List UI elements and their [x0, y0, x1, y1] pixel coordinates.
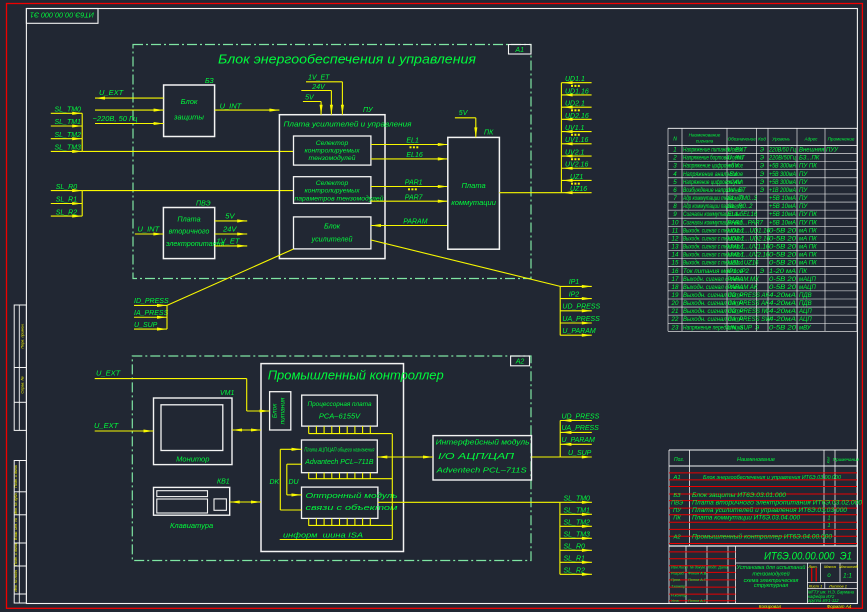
svg-text:14: 14 — [672, 252, 679, 259]
svg-text:Масса: Масса — [824, 564, 837, 569]
svg-text:структурная: структурная — [754, 583, 788, 589]
svg-text:ПУ ПК: ПУ ПК — [799, 164, 817, 170]
svg-text:220В/50Гц: 220В/50Гц — [768, 156, 796, 162]
svg-text:тензомодулей: тензомодулей — [309, 154, 356, 162]
svg-text:+5В 10мА: +5В 10мА — [769, 220, 796, 226]
svg-text:18: 18 — [672, 284, 679, 291]
svg-text:мА ПК: мА ПК — [799, 228, 817, 234]
svg-text:19: 19 — [672, 292, 679, 299]
svg-text:-5V: -5V — [728, 172, 738, 178]
svg-text:мАЦП: мАЦП — [799, 285, 816, 291]
svg-text:0-5В 20: 0-5В 20 — [769, 236, 797, 242]
svg-text:SL_TM3: SL_TM3 — [564, 531, 591, 538]
svg-text:U_INT: U_INT — [728, 156, 747, 162]
svg-text:1:1: 1:1 — [843, 573, 852, 580]
svg-text:Уровень: Уровень — [772, 137, 790, 142]
svg-text:U_INT: U_INT — [220, 102, 243, 111]
svg-text:UN_SUP Э: UN_SUP Э — [728, 325, 760, 331]
svg-text:UV1.16: UV1.16 — [565, 137, 588, 144]
svg-text:SL_R0..2: SL_R0..2 — [728, 204, 754, 210]
svg-text:ПВЭ: ПВЭ — [196, 201, 211, 208]
svg-text:Промышленный контроллер ИТ6Э.0: Промышленный контроллер ИТ6Э.04.00.000 — [692, 534, 833, 541]
svg-text:мА ПК: мА ПК — [799, 253, 817, 259]
svg-text:Блок: Блок — [272, 403, 279, 419]
svg-text:вторичного: вторичного — [169, 227, 210, 236]
svg-text:Промышленный контроллер: Промышленный контроллер — [268, 368, 444, 383]
svg-text:U_EXT: U_EXT — [728, 148, 749, 154]
svg-text:сигнала: сигнала — [696, 139, 714, 144]
svg-text:6: 6 — [673, 187, 677, 194]
svg-text:Блок энергообеспечения и управ: Блок энергообеспечения и управления — [218, 52, 476, 67]
svg-text:1-20 мА: 1-20 мА — [769, 269, 796, 275]
svg-text:1V_ET: 1V_ET — [217, 237, 241, 246]
svg-text:8: 8 — [673, 203, 677, 210]
svg-text:А1: А1 — [672, 475, 680, 481]
svg-text:+5В 10мА: +5В 10мА — [769, 204, 796, 210]
svg-text:Справ. №: Справ. № — [21, 376, 25, 393]
svg-text:UD2.1: UD2.1 — [565, 101, 585, 108]
svg-text:4-20мА: 4-20мА — [769, 317, 796, 323]
svg-text:+5В 10мА: +5В 10мА — [769, 196, 796, 202]
svg-text:Интерфейсный модуль: Интерфейсный модуль — [436, 438, 530, 447]
svg-text:Блок: Блок — [324, 222, 341, 231]
svg-text:Наименование: Наименование — [737, 457, 775, 463]
svg-text:ПУ: ПУ — [799, 204, 808, 210]
svg-text:SL_TM0..3: SL_TM0..3 — [728, 196, 758, 202]
svg-text:24V: 24V — [222, 225, 237, 234]
svg-text:Подп. и дата: Подп. и дата — [14, 543, 18, 566]
svg-text:+1В 200мА: +1В 200мА — [769, 188, 796, 194]
svg-text:+24V: +24V — [728, 180, 743, 186]
svg-text:Поз.: Поз. — [674, 457, 684, 463]
svg-text:Э: Э — [760, 148, 764, 154]
svg-text:U_SUP: U_SUP — [134, 322, 158, 329]
svg-text:I/O АЦП/ЦАП: I/O АЦП/ЦАП — [438, 451, 515, 461]
svg-text:Установка для испытаний: Установка для испытаний — [736, 564, 806, 571]
svg-text:22: 22 — [671, 316, 679, 323]
svg-text:Внешняя ПУУ: Внешняя ПУУ — [799, 148, 839, 154]
svg-text:Н.контр.: Н.контр. — [671, 594, 687, 598]
svg-text:Подп. и дата: Подп. и дата — [14, 465, 18, 488]
svg-text:0-5В 20: 0-5В 20 — [769, 261, 797, 267]
svg-text:16: 16 — [672, 268, 679, 275]
svg-text:Лит.: Лит. — [807, 564, 817, 569]
svg-text:UD2.16: UD2.16 — [565, 113, 589, 120]
svg-text:усилителей: усилителей — [310, 235, 352, 244]
svg-text:U_EXT: U_EXT — [96, 369, 122, 378]
svg-text:Э: Э — [760, 188, 764, 194]
svg-text:+5В 300мА: +5В 300мА — [769, 164, 796, 170]
svg-text:11: 11 — [672, 227, 678, 234]
svg-text:10: 10 — [672, 219, 679, 226]
svg-text:Копировал: Копировал — [759, 604, 782, 609]
svg-text:Фокин А.В.: Фокин А.В. — [688, 572, 707, 576]
svg-text:А2: А2 — [672, 535, 681, 541]
svg-text:Плата: Плата — [462, 181, 486, 190]
svg-text:5V: 5V — [305, 94, 315, 101]
svg-text:~220В, 50 Гц: ~220В, 50 Гц — [93, 114, 139, 123]
svg-text:0-5В 20: 0-5В 20 — [769, 325, 797, 331]
svg-text:5: 5 — [673, 179, 677, 186]
svg-text:U_SUP: U_SUP — [568, 450, 592, 457]
svg-text:7: 7 — [673, 195, 677, 202]
svg-text:ПУ ПК: ПУ ПК — [799, 220, 817, 226]
svg-text:Э: Э — [760, 156, 764, 162]
svg-text:Э: Э — [760, 164, 764, 170]
svg-text:АЦП: АЦП — [798, 309, 812, 315]
svg-text:EL1: EL1 — [406, 138, 419, 145]
svg-text:UD_PRESS IW: UD_PRESS IW — [728, 309, 771, 315]
svg-text:0-5В 20: 0-5В 20 — [769, 245, 797, 251]
svg-text:А2: А2 — [515, 359, 525, 366]
svg-text:0-5В 20: 0-5В 20 — [769, 285, 797, 291]
svg-text:PARAM.MX: PARAM.MX — [728, 277, 761, 283]
svg-text:Масштаб: Масштаб — [839, 564, 858, 569]
svg-text:UZ1...UZ16: UZ1...UZ16 — [728, 261, 760, 267]
svg-text:220В/50 Гц: 220В/50 Гц — [768, 148, 796, 154]
svg-text:SL_R1: SL_R1 — [564, 555, 586, 562]
svg-text:ИТ6Э.00.00.000 Э1: ИТ6Э.00.00.000 Э1 — [764, 551, 852, 563]
svg-text:UD2.1...UD2.16: UD2.1...UD2.16 — [728, 236, 771, 242]
svg-text:4-20мА: 4-20мА — [769, 301, 796, 307]
svg-text:1: 1 — [673, 147, 676, 154]
svg-text:Клавиатура: Клавиатура — [170, 521, 213, 530]
svg-text:Попов А.Г.: Попов А.Г. — [688, 599, 707, 603]
svg-text:UD1.16: UD1.16 — [565, 88, 589, 95]
svg-text:U_EXT: U_EXT — [99, 88, 125, 97]
svg-text:ПК: ПК — [799, 269, 807, 275]
svg-text:мВУ: мВУ — [799, 325, 812, 331]
svg-text:Применение: Применение — [828, 137, 855, 142]
svg-text:UZ16: UZ16 — [570, 186, 587, 193]
svg-text:А1: А1 — [514, 47, 524, 54]
svg-text:SL_TM2: SL_TM2 — [564, 519, 591, 526]
svg-text:PARAM AK: PARAM AK — [728, 285, 759, 291]
svg-text:SL_TM1: SL_TM1 — [564, 507, 591, 514]
svg-text:ПДВ: ПДВ — [799, 301, 812, 307]
svg-text:SL_TM1: SL_TM1 — [55, 119, 82, 126]
svg-text:Взам. инв. №: Взам. инв. № — [14, 518, 18, 540]
svg-text:Блок защиты ИТ6Э.03.01.000: Блок защиты ИТ6Э.03.01.000 — [692, 492, 787, 499]
svg-text:PAR1: PAR1 — [405, 180, 423, 187]
svg-text:ПДВ: ПДВ — [799, 293, 812, 299]
svg-text:мА ПК: мА ПК — [799, 236, 817, 242]
svg-text:SL_TM2: SL_TM2 — [55, 132, 82, 139]
svg-text:Инв. № дубл.: Инв. № дубл. — [14, 492, 18, 514]
svg-text:Плата вторичного электропитани: Плата вторичного электропитания ИТ6Э.03.… — [692, 500, 863, 507]
svg-text:UA_PRESS SW: UA_PRESS SW — [728, 317, 773, 323]
svg-text:Advantech PCL–711B: Advantech PCL–711B — [304, 459, 374, 466]
svg-text:Кол: Кол — [826, 456, 831, 463]
svg-text:PARAM: PARAM — [403, 219, 428, 226]
svg-text:UV2.1: UV2.1 — [565, 149, 585, 156]
svg-text:коммутации: коммутации — [451, 198, 496, 207]
svg-text:0-5В 20: 0-5В 20 — [769, 253, 797, 259]
svg-text:DU: DU — [289, 479, 300, 486]
svg-text:Э: Э — [760, 172, 764, 178]
svg-text:ИТ6Э.00.00.000 Э1: ИТ6Э.00.00.000 Э1 — [30, 11, 94, 18]
svg-text:EL1...EL16: EL1...EL16 — [728, 212, 758, 218]
svg-text:IP2: IP2 — [569, 291, 580, 298]
svg-text:+5В 300мА: +5В 300мА — [769, 172, 796, 178]
svg-text:Блок энергообеспечения и управ: Блок энергообеспечения и управления ИТ6Э… — [703, 475, 842, 481]
svg-text:Плата усилителей и управления: Плата усилителей и управления ИТ6Э.03.03… — [692, 507, 848, 514]
svg-text:ПУ: ПУ — [363, 107, 374, 114]
svg-text:Т.контр.: Т.контр. — [671, 585, 686, 589]
svg-text:АЦП: АЦП — [798, 317, 812, 323]
svg-text:4: 4 — [673, 171, 677, 178]
svg-text:12: 12 — [672, 235, 679, 242]
svg-text:UV1.1: UV1.1 — [565, 125, 585, 132]
svg-text:13: 13 — [672, 244, 679, 251]
svg-text:Оптронный модуль: Оптронный модуль — [306, 491, 398, 500]
svg-text:SL_TM3: SL_TM3 — [55, 145, 82, 152]
svg-text:Плата АЦП/ЦАП общего назначени: Плата АЦП/ЦАП общего назначения — [304, 448, 374, 454]
svg-text:UZ1: UZ1 — [570, 174, 583, 181]
svg-text:Разраб.: Разраб. — [671, 572, 685, 576]
svg-text:1V_ET: 1V_ET — [728, 188, 748, 194]
svg-text:UA_PRESS АК: UA_PRESS АК — [728, 301, 770, 307]
svg-text:Код: Код — [758, 137, 766, 142]
svg-text:Листов 1: Листов 1 — [828, 584, 847, 589]
svg-text:1: 1 — [827, 516, 830, 522]
svg-text:SL_R2: SL_R2 — [564, 567, 586, 574]
svg-text:мАЦП: мАЦП — [799, 277, 816, 283]
svg-text:Блок: Блок — [181, 97, 198, 106]
svg-text:контролируемых: контролируемых — [304, 188, 360, 195]
svg-text:4-20мА: 4-20мА — [769, 309, 796, 315]
svg-text:21: 21 — [671, 308, 679, 315]
svg-text:0-5В 20: 0-5В 20 — [769, 277, 797, 283]
svg-text:IP1, IP2: IP1, IP2 — [728, 269, 750, 275]
svg-text:UD1.1: UD1.1 — [565, 76, 585, 83]
svg-text:17: 17 — [672, 276, 679, 283]
svg-text:UV2.1...UV2.16: UV2.1...UV2.16 — [728, 253, 770, 259]
svg-text:Э: Э — [760, 180, 764, 186]
svg-text:защиты: защиты — [173, 113, 204, 122]
svg-text:ПУ: ПУ — [799, 172, 808, 178]
svg-text:Утв.: Утв. — [671, 599, 680, 603]
svg-text:связи с объектом: связи с объектом — [306, 503, 398, 512]
svg-text:Изм Лист № докум. Подп. Дата: Изм Лист № докум. Подп. Дата — [671, 566, 728, 570]
svg-text:24V: 24V — [311, 84, 326, 91]
svg-text:Лист 1: Лист 1 — [808, 584, 823, 589]
svg-text:мА ПК: мА ПК — [799, 261, 817, 267]
svg-text:U_EXT: U_EXT — [94, 421, 120, 430]
svg-text:Адрес: Адрес — [804, 137, 819, 142]
svg-text:питания: питания — [280, 397, 287, 424]
svg-text:IA_PRESS: IA_PRESS — [134, 310, 169, 317]
svg-text:Селектор: Селектор — [316, 180, 349, 187]
svg-text:UD1.1...UD1.16: UD1.1...UD1.16 — [728, 228, 771, 234]
svg-text:мА ПК: мА ПК — [799, 245, 817, 251]
svg-text:ПВЭ: ПВЭ — [671, 501, 683, 507]
svg-text:БЗ: БЗ — [673, 493, 681, 499]
svg-text:23: 23 — [671, 324, 679, 331]
svg-text:1: 1 — [827, 523, 830, 529]
svg-text:15: 15 — [672, 260, 679, 267]
svg-text:Плата коммутации ИТ6Э.03.04.00: Плата коммутации ИТ6Э.03.04.000 — [692, 515, 801, 522]
svg-text:ПУ: ПУ — [799, 196, 808, 202]
svg-text:Формат А4: Формат А4 — [827, 604, 852, 609]
svg-text:SL_TM0: SL_TM0 — [55, 107, 82, 114]
svg-text:КВ1: КВ1 — [217, 479, 230, 486]
svg-text:2: 2 — [672, 155, 677, 162]
svg-text:PAR1...PAR7: PAR1...PAR7 — [728, 220, 764, 226]
svg-text:1V_ET: 1V_ET — [308, 75, 330, 82]
svg-text:Попов А.Г.: Попов А.Г. — [688, 578, 707, 582]
svg-text:PCA–6155V: PCA–6155V — [319, 412, 361, 421]
svg-text:20: 20 — [671, 300, 679, 307]
svg-text:UD_PRESS: UD_PRESS — [562, 304, 600, 311]
svg-text:U_PARAM: U_PARAM — [562, 437, 595, 444]
svg-text:ID_PRESS: ID_PRESS — [134, 298, 169, 305]
svg-text:информ шина ISA: информ шина ISA — [283, 531, 363, 540]
svg-text:VM1: VM1 — [220, 390, 235, 397]
svg-text:ПК: ПК — [673, 516, 681, 522]
svg-text:Инв. № подл.: Инв. № подл. — [14, 569, 18, 591]
svg-text:Перв. примен.: Перв. примен. — [21, 323, 25, 348]
svg-text:5V: 5V — [459, 110, 469, 117]
svg-text:тензомодулей: тензомодулей — [752, 571, 789, 578]
svg-text:UD_PRESS: UD_PRESS — [562, 413, 600, 420]
svg-text:ПУ: ПУ — [673, 508, 682, 514]
svg-text:3: 3 — [673, 163, 677, 170]
svg-text:Монитор: Монитор — [176, 455, 209, 464]
svg-text:Процессорная плата: Процессорная плата — [308, 402, 373, 408]
svg-text:5V: 5V — [225, 212, 235, 221]
svg-text:0-5В 20: 0-5В 20 — [769, 228, 797, 234]
svg-text:PAR7: PAR7 — [405, 195, 424, 202]
svg-text:параметров тензомодулей: параметров тензомодулей — [295, 195, 384, 203]
svg-text:ПУ: ПУ — [799, 188, 808, 194]
svg-text:UA_PRESS: UA_PRESS — [562, 425, 600, 432]
svg-text:EL16: EL16 — [406, 152, 422, 159]
svg-text:U_PARAM: U_PARAM — [562, 328, 595, 335]
svg-text:БЗ: БЗ — [205, 78, 214, 85]
svg-text:группа ИУ1-112: группа ИУ1-112 — [808, 598, 839, 603]
svg-text:N: N — [673, 137, 677, 143]
svg-text:SL_TM0: SL_TM0 — [564, 495, 591, 502]
svg-text:UV2.16: UV2.16 — [565, 162, 588, 169]
svg-text:SL_R0: SL_R0 — [564, 543, 586, 550]
svg-text:+5В 10мА: +5В 10мА — [769, 212, 796, 218]
svg-text:Плата усилителей и управления: Плата усилителей и управления — [284, 120, 412, 129]
svg-text:ПУ: ПУ — [799, 180, 808, 186]
svg-text:Селектор: Селектор — [316, 140, 349, 147]
svg-text:4-20мА: 4-20мА — [769, 293, 796, 299]
svg-text:UD_PRESS АК: UD_PRESS АК — [728, 293, 770, 299]
svg-text:IP1: IP1 — [569, 279, 580, 286]
svg-text:UA_PRESS: UA_PRESS — [562, 316, 600, 323]
svg-text:Плата: Плата — [177, 215, 200, 224]
svg-text:Э: Э — [760, 269, 764, 275]
svg-text:DK: DK — [270, 479, 280, 486]
svg-text:Обозначение: Обозначение — [728, 137, 757, 142]
svg-text:+5V: +5V — [728, 164, 740, 170]
svg-text:Пров.: Пров. — [671, 578, 681, 582]
svg-text:Adventech PCL–711S: Adventech PCL–711S — [435, 466, 526, 475]
svg-text:контролируемых: контролируемых — [304, 148, 360, 155]
svg-text:UV1.1...UV1.16: UV1.1...UV1.16 — [728, 245, 770, 251]
svg-text:ПУ ПК: ПУ ПК — [799, 212, 817, 218]
svg-text:U_INT: U_INT — [138, 225, 161, 234]
svg-text:Примечание: Примечание — [833, 457, 860, 462]
svg-text:9: 9 — [673, 211, 677, 218]
svg-text:ПК: ПК — [484, 130, 494, 137]
svg-text:Наименование: Наименование — [689, 133, 721, 138]
svg-text:БЗ...ПК: БЗ...ПК — [799, 156, 820, 162]
svg-text:+5В 300мА: +5В 300мА — [769, 180, 796, 186]
